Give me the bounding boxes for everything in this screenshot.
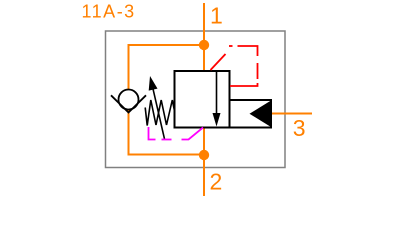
junction node A (top) bbox=[199, 40, 209, 50]
adjustment arrow shaft bbox=[152, 85, 165, 140]
spring (adjustable) bbox=[145, 100, 174, 126]
wire: port 3 horizontal line bbox=[271, 113, 312, 115]
drain line magenta dash 2 bbox=[162, 139, 172, 141]
junction node B (bottom) bbox=[199, 150, 209, 160]
envelope frame of valve 11A-3 bbox=[106, 31, 286, 168]
svg-text:3: 3 bbox=[293, 115, 306, 141]
pilot line red top/right solid corner bbox=[238, 46, 258, 56]
svg-text:11A-3: 11A-3 bbox=[82, 2, 136, 22]
pilot line red middle vertical dash bbox=[257, 63, 259, 79]
wire: branch from node A left to check valve column bbox=[129, 45, 205, 155]
check valve ball circle bbox=[119, 90, 139, 110]
flow path arrow head (down) bbox=[213, 113, 221, 127]
drain line magenta dash 3 with diagonal to valve bottom bbox=[182, 128, 204, 140]
drain line (magenta dashed) corner piece bbox=[149, 127, 156, 140]
pilot line red bottom corner into valve right edge bbox=[230, 83, 258, 86]
valve body square bbox=[175, 71, 230, 128]
svg-text:1: 1 bbox=[210, 2, 223, 28]
pilot line red dash at corner bbox=[229, 45, 233, 47]
adjustment arrow head bbox=[149, 76, 158, 91]
pilot actuator box bbox=[230, 100, 272, 128]
wire: valve bottom to port 2 bbox=[203, 128, 205, 197]
wire: port 1 vertical line into node bbox=[203, 3, 205, 71]
check valve seat V bbox=[111, 95, 146, 112]
flow path line inside valve bbox=[216, 71, 218, 114]
svg-text:2: 2 bbox=[210, 168, 223, 194]
pilot triangle (hydraulic pilot) bbox=[250, 101, 272, 128]
pilot line (red dashed) from node A to pilot box: diagonal dash bbox=[211, 54, 226, 70]
